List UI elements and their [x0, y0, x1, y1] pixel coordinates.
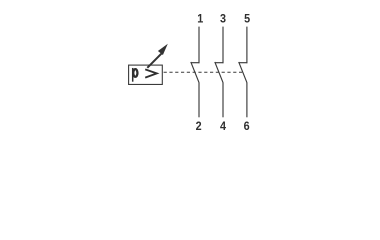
contact seat tick pole 2 — [215, 62, 223, 64]
contact seat tick pole 1 — [191, 62, 199, 64]
contact blade pole 2 — [215, 62, 223, 83]
wire top pole 1 — [198, 27, 200, 64]
letter p bowl — [133, 69, 137, 77]
letter p stem — [132, 68, 134, 82]
actuation arrow head — [158, 44, 168, 55]
svg-text:2: 2 — [196, 120, 202, 133]
contact seat tick pole 3 — [239, 62, 247, 64]
contact blade pole 3 — [239, 62, 247, 83]
pressure switch actuator box P> — [129, 65, 163, 84]
svg-text:1: 1 — [197, 13, 204, 26]
wire bottom pole 1 — [198, 83, 200, 118]
mechanical link dashed line — [164, 71, 243, 73]
actuation arrow shaft — [147, 53, 162, 68]
greater-than symbol — [145, 69, 157, 77]
contact blade pole 1 — [191, 62, 199, 83]
svg-text:5: 5 — [244, 13, 251, 26]
wire top pole 3 — [246, 27, 248, 64]
svg-text:6: 6 — [244, 120, 250, 133]
svg-text:3: 3 — [220, 13, 226, 26]
svg-text:4: 4 — [220, 120, 227, 133]
wire top pole 2 — [222, 27, 224, 64]
wire bottom pole 3 — [246, 83, 248, 118]
wire bottom pole 2 — [222, 83, 224, 118]
